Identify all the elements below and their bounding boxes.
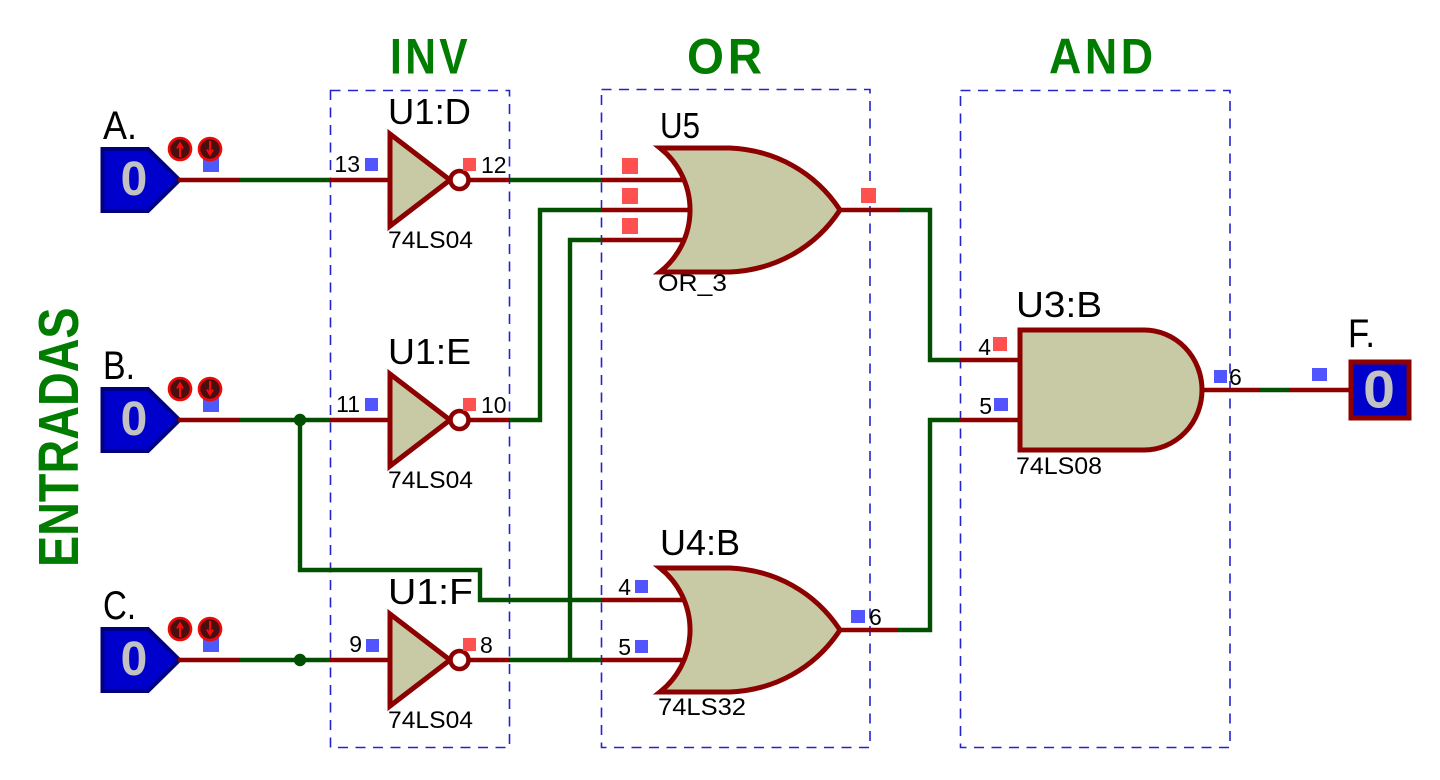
label U1:D [388,91,471,132]
inverter U1:D (74LS04) [330,134,510,226]
pin state square 9 (low) [366,639,379,652]
svg-text:6: 6 [869,604,882,630]
svg-text:0: 0 [1363,359,1395,419]
or gate U4:B (74LS32) [602,568,898,692]
label 74LS08 [1016,453,1102,480]
svg-text:9: 9 [349,631,362,657]
pin number 12 [481,152,507,178]
label 74LS04 (U1:D) [388,227,473,254]
svg-text:74LS08: 74LS08 [1016,453,1102,480]
svg-text:13: 13 [334,151,360,177]
label OR_3 [658,270,727,297]
label F. [1348,312,1375,356]
wire U3:B out to F [1260,388,1290,392]
svg-text:74LS04: 74LS04 [388,467,473,494]
dashed group box AND [961,91,1231,748]
pin state square U3 in4 (high) [993,337,1007,351]
logic input B (LOGICSTATE) [103,389,180,451]
svg-text:8: 8 [480,632,493,658]
label ENTRADAS [28,307,91,567]
probe square C (low) [203,637,219,652]
probe square A (low) [203,157,219,172]
pin state square U4 in4 (low) [635,580,648,593]
svg-text:11: 11 [336,391,360,417]
pin number 6 (U3:B) [1229,364,1242,390]
svg-text:OR_3: OR_3 [658,270,727,297]
svg-text:INV: INV [390,28,471,84]
toggle up button A [169,138,191,160]
toggle down button A [199,138,221,160]
label C. [103,584,136,628]
wire U1:D out to U5 input 1 [510,178,602,182]
pin state square 11 (low) [365,398,378,411]
wire A to U1:D [240,178,330,182]
label 74LS04 (U1:F) [388,707,473,734]
label 74LS32 [658,694,746,721]
pin number 13 [334,151,360,177]
toggle down button C [199,618,221,640]
wire U4:B out to U3:B input 5 [898,420,960,630]
svg-text:U1:F: U1:F [388,571,473,612]
pin state square 8 (high) [463,638,476,651]
logic input A (LOGICSTATE) [103,149,180,211]
wire U1:F out to U4:B input 5 [510,658,602,662]
pin number 5 (U3:B) [979,393,992,419]
pin state square U5 in1 (high) [622,158,638,174]
svg-text:0: 0 [121,633,148,686]
label U3:B [1016,284,1102,325]
pin state square F (low) [1312,368,1327,381]
inverter U1:F (74LS04) [330,614,510,706]
label U1:E [388,331,471,372]
wire U5 out to U3:B input 4 [900,210,960,360]
pin state square U3 in5 (low) [994,398,1008,411]
label U5 [660,105,700,146]
svg-text:0: 0 [121,393,148,446]
pin state square U5 in2 (high) [622,188,638,204]
pin number 5 (U4:B) [618,634,631,660]
section title INV [390,28,471,84]
svg-text:4: 4 [978,334,991,360]
svg-text:4: 4 [618,574,631,600]
wire riser U1:F out to U5 input 3 [570,240,602,660]
label U4:B [660,522,740,563]
pin number 4 (U3:B) [978,334,991,360]
section title AND [1049,29,1157,85]
pin state square U4 out (low) [851,610,865,623]
pin number 6 (U4:B) [869,604,882,630]
pin number 11 [336,391,360,417]
svg-text:10: 10 [481,392,507,418]
and gate U3:B (74LS08) [960,330,1260,450]
pin number 9 [349,631,362,657]
pin of input C [178,658,240,662]
svg-text:F.: F. [1348,312,1375,356]
svg-text:B.: B. [103,344,135,388]
or gate U5 (OR_3) [602,148,900,272]
pin number 4 (U4:B) [618,574,631,600]
pin number 8 [480,632,493,658]
pin state square U4 in5 (low) [635,640,648,653]
svg-text:AND: AND [1049,29,1157,85]
logic probe F (LOGICPROBE) [1351,359,1409,419]
svg-text:U5: U5 [660,105,700,146]
wire C to U1:F [240,658,330,662]
toggle up button B [169,378,191,400]
svg-text:U1:D: U1:D [388,91,471,132]
inverter U1:E (74LS04) [330,374,510,466]
svg-text:74LS04: 74LS04 [388,227,473,254]
svg-text:5: 5 [618,634,631,660]
dashed group box INV [331,91,510,748]
dashed group box OR [602,90,871,748]
svg-text:74LS04: 74LS04 [388,707,473,734]
svg-text:U3:B: U3:B [1016,284,1102,325]
toggle down button B [199,378,221,400]
svg-text:6: 6 [1229,364,1242,390]
svg-text:U1:E: U1:E [388,331,471,372]
label A. [103,104,137,148]
pin state square U3 out (low) [1214,370,1227,383]
pin of output F [1290,388,1352,392]
wire B to U1:E [240,418,330,422]
pin state square 13 (low) [365,158,378,171]
svg-text:74LS32: 74LS32 [658,694,746,721]
wire branch B to U4:B input 4 [300,420,602,600]
pin of input A [178,178,240,182]
pin state square 12 (high) [463,158,476,171]
probe square B (low) [203,397,219,412]
pin of input B [178,418,240,422]
svg-text:0: 0 [121,153,148,206]
svg-text:C.: C. [103,584,136,628]
svg-text:U4:B: U4:B [660,522,740,563]
svg-text:12: 12 [481,152,507,178]
svg-text:5: 5 [979,393,992,419]
label B. [103,344,135,388]
label U1:F [388,571,473,612]
junction node C [294,654,306,666]
label 74LS04 (U1:E) [388,467,473,494]
toggle up button C [169,618,191,640]
junction node B [294,414,306,426]
pin state square U5 out (high) [861,188,876,203]
pin number 10 [481,392,507,418]
wire U1:E out riser to U5 input 2 [510,210,602,420]
pin state square U5 in3 (high) [622,218,638,234]
svg-text:ENTRADAS: ENTRADAS [28,307,91,567]
logic input C (LOGICSTATE) [103,629,180,691]
pin state square 10 (high) [463,398,476,411]
svg-text:OR: OR [687,29,766,84]
section title OR [687,29,766,84]
svg-text:A.: A. [103,104,137,148]
